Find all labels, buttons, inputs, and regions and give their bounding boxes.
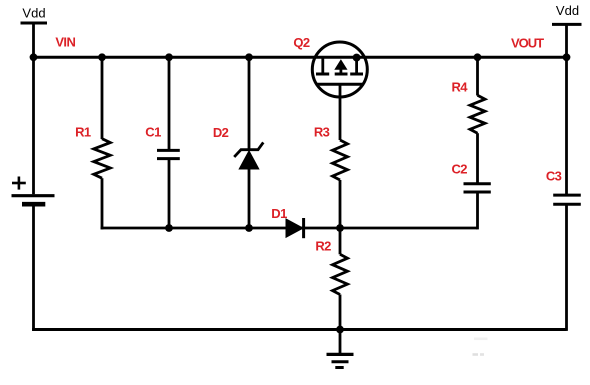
svg-text:R3: R3 bbox=[314, 125, 330, 140]
svg-text:C1: C1 bbox=[145, 125, 161, 140]
svg-text:D1: D1 bbox=[271, 206, 287, 221]
svg-text:R1: R1 bbox=[75, 125, 91, 140]
svg-text:C3: C3 bbox=[546, 169, 562, 184]
svg-text:Vdd: Vdd bbox=[22, 6, 45, 21]
svg-text:R4: R4 bbox=[451, 80, 468, 95]
svg-text:VIN: VIN bbox=[55, 34, 75, 49]
svg-text:R2: R2 bbox=[315, 239, 331, 254]
svg-text:C2: C2 bbox=[451, 162, 467, 177]
svg-text:Q2: Q2 bbox=[293, 35, 310, 50]
svg-text:Vdd: Vdd bbox=[556, 3, 579, 18]
svg-text:VOUT: VOUT bbox=[511, 35, 544, 50]
svg-text:D2: D2 bbox=[213, 125, 229, 140]
